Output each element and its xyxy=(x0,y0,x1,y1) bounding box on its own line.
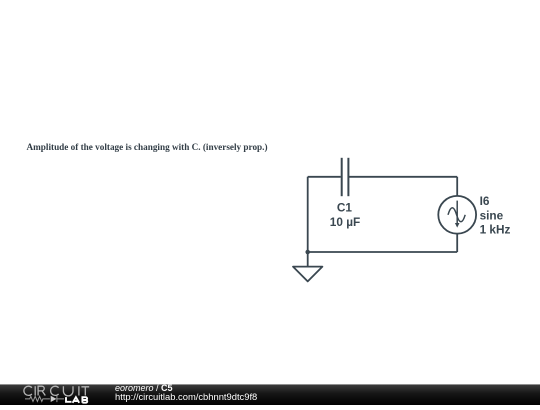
svg-text:I6: I6 xyxy=(480,194,490,208)
svg-text:sine: sine xyxy=(480,208,504,222)
svg-text:C1: C1 xyxy=(337,201,353,215)
svg-text:1 kHz: 1 kHz xyxy=(480,223,511,237)
svg-text:10 µF: 10 µF xyxy=(330,215,360,229)
